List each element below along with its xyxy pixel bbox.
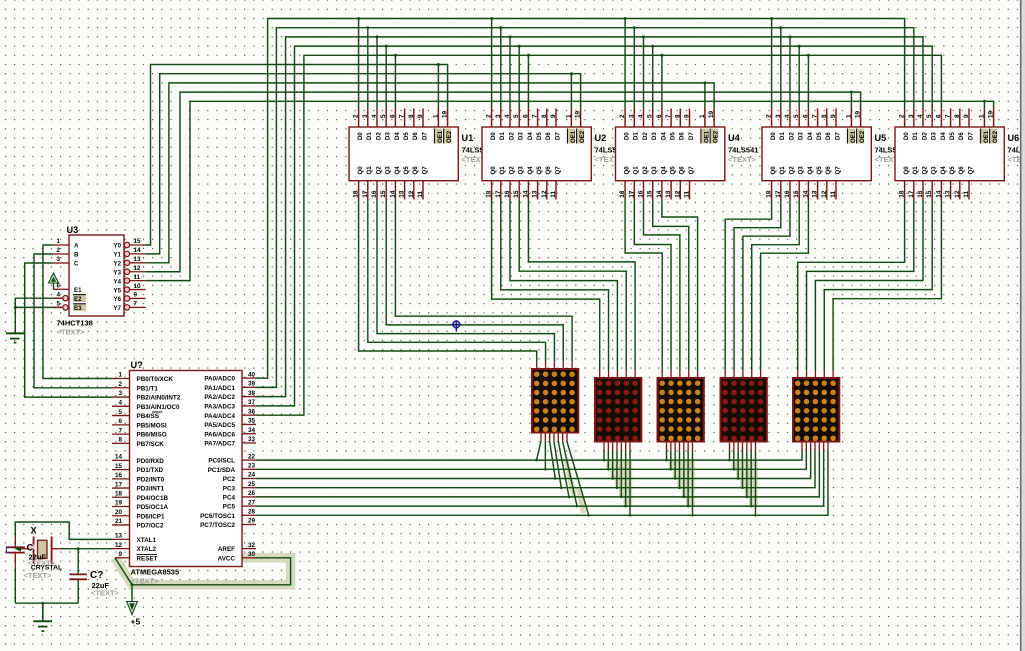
wire: data bus net PA3 (MCU pin 37 to D3 rails) (256, 46, 932, 406)
svg-text:36: 36 (248, 408, 256, 415)
wire: drop of data net PA4 to U4 pin D4 (661, 55, 663, 108)
svg-text:OE1: OE1 (850, 130, 857, 143)
svg-text:24: 24 (248, 472, 256, 479)
U4 pin 9 D7 (689, 109, 691, 128)
ground symbol at U3 E2/E3 (6, 332, 24, 334)
crystal X (19, 548, 34, 550)
svg-text:D2: D2 (788, 132, 795, 140)
svg-text:11: 11 (830, 190, 837, 197)
wire: U1 Q2 to DotMatrix1 column 3 (377, 200, 554, 362)
svg-text:PC4: PC4 (223, 495, 236, 502)
svg-text:11: 11 (963, 190, 970, 197)
MCU U? ATMEGA8535 (130, 371, 243, 567)
U1 pin 16 Q2 (376, 181, 378, 200)
wire: drop of data net PA2 to U4 pin D2 (643, 37, 645, 109)
U4 pin 17 Q1 (633, 181, 635, 200)
svg-text:17: 17 (115, 481, 123, 488)
svg-text:Q2: Q2 (642, 166, 649, 175)
svg-text:5: 5 (380, 114, 387, 118)
svg-text:U4: U4 (728, 133, 741, 143)
svg-text:D4: D4 (807, 132, 814, 140)
svg-text:OE1: OE1 (437, 130, 444, 143)
svg-text:2: 2 (118, 381, 122, 388)
wire: DotMatrix4 row 1 drop to row bus PC0 (729, 451, 731, 461)
svg-text:PD2/INT0: PD2/INT0 (137, 476, 165, 483)
svg-text:D0: D0 (357, 132, 364, 140)
wire: DotMatrix1 row 5 diagonal to row bus PC4 (558, 442, 569, 497)
wire: drop of data net PA0 to U2 pin D0 (491, 19, 493, 109)
U5 pin 11 Q7 (835, 181, 837, 200)
U5 pin 16 Q2 (789, 181, 791, 200)
svg-text:Q7: Q7 (688, 166, 695, 175)
svg-text:14: 14 (802, 190, 809, 198)
wire: cap C? top lead (77, 549, 79, 575)
svg-text:12: 12 (134, 265, 142, 272)
U2 pin 5 D3 (518, 109, 520, 128)
svg-text:1: 1 (565, 114, 572, 118)
svg-text:5: 5 (56, 301, 60, 308)
ground symbol bottom left (42, 603, 44, 621)
svg-text:5: 5 (647, 114, 654, 118)
U? pin 1 PB0/T0/XCK (112, 378, 130, 380)
U2 pin 4 D2 (509, 109, 511, 128)
wire: cap C? bottom lead to ground rail (77, 579, 79, 603)
svg-text:Q6: Q6 (825, 166, 832, 175)
wire: DotMatrix1 row 2 diagonal to row bus PC1 (544, 442, 546, 470)
svg-text:19: 19 (115, 500, 123, 507)
svg-text:D3: D3 (385, 132, 392, 140)
U6 pin 5 D3 (931, 109, 933, 128)
svg-text:1: 1 (432, 114, 439, 118)
svg-text:19: 19 (575, 110, 582, 118)
U2 pin 11 Q7 (555, 181, 557, 200)
svg-text:OE2: OE2 (579, 130, 586, 143)
svg-text:PD4/OC1B: PD4/OC1B (137, 495, 169, 502)
svg-text:3: 3 (628, 114, 635, 118)
U3 pin 14 Y1 (124, 251, 129, 256)
wire: drop of enable net Y2 to U4 pin OE1 (704, 83, 706, 109)
U? pin 19 PD5/OC1A (112, 506, 130, 508)
U3 pin 11 Y4 (124, 278, 129, 283)
svg-text:D4: D4 (940, 132, 947, 140)
U5 pin 5 D3 (798, 109, 800, 128)
U3 pin 1 A (53, 244, 69, 246)
wire: DotMatrix4 row 5 drop to row bus PC4 (746, 451, 748, 497)
svg-text:X: X (31, 526, 38, 536)
svg-text:8: 8 (118, 437, 122, 444)
svg-text:4: 4 (118, 400, 122, 407)
U4 pin 13 Q5 (670, 181, 672, 200)
U2 pin 1 OE1 (570, 109, 572, 128)
svg-text:4: 4 (371, 114, 378, 118)
wire: DotMatrix3 row 4 drop to row bus PC3 (678, 451, 680, 488)
wire: U6 Q1 to DotMatrix5 column 2 (807, 200, 914, 371)
svg-text:8: 8 (821, 114, 828, 118)
wire: XTAL2 net (60, 548, 112, 550)
wire: enable net Y2 (U3 pin 13 to U4 OE1/OE2) (146, 83, 715, 263)
U? pin 21 PD7/OC2 (112, 524, 130, 526)
U? pin 20 PD6/ICP1 (112, 515, 130, 517)
svg-text:Y2: Y2 (114, 261, 122, 268)
U1 pin 19 OE2 (447, 109, 449, 128)
svg-text:D6: D6 (958, 132, 965, 140)
svg-text:D1: D1 (912, 132, 919, 140)
svg-text:8: 8 (674, 114, 681, 118)
svg-text:2: 2 (353, 114, 360, 118)
svg-text:+5: +5 (131, 616, 141, 626)
svg-text:D0: D0 (490, 132, 497, 140)
U5 pin 1 OE1 (850, 109, 852, 128)
wire: U1 Q0 to DotMatrix1 column 1 (359, 200, 537, 362)
U2 pin 6 D4 (527, 109, 529, 128)
U4 pin 8 D6 (679, 109, 681, 128)
svg-text:38: 38 (248, 390, 256, 397)
svg-text:U6: U6 (1008, 133, 1020, 143)
svg-text:15: 15 (134, 238, 142, 245)
svg-text:12: 12 (408, 190, 415, 198)
svg-text:U3: U3 (67, 225, 79, 235)
svg-text:D3: D3 (651, 132, 658, 140)
wire: DotMatrix3 row 7 drop to row bus PC6 (691, 451, 693, 516)
wire: enable net Y1 (U3 pin 14 to U2 OE1/OE2) (146, 74, 581, 254)
svg-text:Q5: Q5 (670, 166, 677, 175)
U? pin 13 XTAL1 (112, 538, 130, 540)
svg-text:D5: D5 (949, 132, 956, 140)
wire: DotMatrix4 row 4 drop to row bus PC3 (741, 451, 743, 488)
U? pin 4 PB3/AIN1/OC0 (112, 405, 130, 407)
wire: U5 Q2 to DotMatrix4 column 3 (743, 200, 790, 371)
svg-text:U2: U2 (595, 133, 607, 143)
U3 pin 15 Y0 (124, 242, 129, 247)
svg-text:E3: E3 (74, 305, 82, 312)
wire: DotMatrix1 row 1 diagonal to row bus PC0 (537, 442, 542, 461)
U6 pin 2 D0 (904, 109, 906, 128)
wire: row bus net PC1 (MCU pin 23 to matrix rows) (256, 451, 806, 470)
svg-text:2: 2 (56, 247, 60, 254)
svg-text:6: 6 (522, 114, 529, 118)
svg-text:6: 6 (56, 283, 60, 290)
svg-text:9: 9 (684, 114, 691, 118)
wire: DotMatrix3 row 6 drop to row bus PC5 (687, 451, 689, 507)
svg-text:Q1: Q1 (366, 166, 373, 175)
svg-text:35: 35 (248, 418, 256, 425)
svg-text:4: 4 (56, 291, 60, 298)
U6 pin 6 D4 (940, 109, 942, 128)
U? pin 28 PC6/TOSC1 (242, 514, 256, 516)
U1 pin 18 Q0 (358, 181, 360, 200)
wire: U2 Q4 to DotMatrix2 column 5 (528, 200, 635, 371)
svg-text:8: 8 (408, 114, 415, 118)
svg-text:4: 4 (638, 114, 645, 118)
wire: DotMatrix4 row 3 drop to row bus PC2 (737, 451, 739, 479)
svg-text:D4: D4 (660, 132, 667, 140)
svg-text:D6: D6 (545, 132, 552, 140)
svg-text:PB0/T0/XCK: PB0/T0/XCK (137, 376, 174, 383)
U1 pin 15 Q3 (385, 181, 387, 200)
wire: row bus net PC0 (MCU pin 22 to matrix rows) (256, 451, 802, 461)
svg-text:OE2: OE2 (992, 130, 999, 143)
svg-text:PD7/OC2: PD7/OC2 (137, 523, 164, 530)
U4 pin 18 Q0 (624, 181, 626, 200)
svg-text:25: 25 (248, 481, 256, 488)
capacitor C1 (left, vertical) (14, 537, 16, 548)
svg-text:Q1: Q1 (633, 166, 640, 175)
U1 pin 5 D3 (385, 109, 387, 128)
svg-text:12: 12 (954, 190, 961, 198)
svg-text:Q5: Q5 (536, 166, 543, 175)
U1 pin 12 Q6 (413, 181, 415, 200)
wire: drop of data net PA3 to U5 pin D3 (798, 46, 800, 108)
U5 pin 12 Q6 (826, 181, 828, 200)
svg-text:3: 3 (908, 114, 915, 118)
svg-text:15: 15 (926, 190, 933, 198)
U? pin 5 PB4/SS (112, 415, 130, 417)
wire: DotMatrix3 row 5 drop to row bus PC4 (683, 451, 685, 497)
svg-text:6: 6 (656, 114, 663, 118)
svg-text:32: 32 (248, 542, 256, 549)
svg-text:13: 13 (665, 190, 672, 198)
svg-text:Q3: Q3 (518, 166, 525, 175)
wire: row bus net PC4 (MCU pin 26 to matrix rows) (256, 451, 819, 497)
svg-text:19: 19 (988, 110, 995, 118)
svg-text:Q2: Q2 (508, 166, 515, 175)
svg-text:1: 1 (845, 114, 852, 118)
svg-text:15: 15 (513, 190, 520, 198)
svg-text:13: 13 (945, 190, 952, 198)
svg-text:D1: D1 (633, 132, 640, 140)
svg-text:5: 5 (118, 409, 122, 416)
svg-text:PA5/ADC5: PA5/ADC5 (204, 422, 235, 429)
U5 pin 15 Q3 (798, 181, 800, 200)
U6 pin 8 D6 (959, 109, 961, 128)
svg-text:12: 12 (821, 190, 828, 198)
wire: DotMatrix2 row 3 drop to row bus PC2 (612, 451, 614, 479)
svg-text:16: 16 (784, 190, 791, 198)
svg-text:4: 4 (784, 114, 791, 118)
svg-text:17: 17 (495, 190, 502, 198)
svg-text:6: 6 (389, 114, 396, 118)
svg-text:7: 7 (118, 427, 122, 434)
svg-text:9: 9 (963, 114, 970, 118)
label C left cap (28, 544, 34, 550)
U? pin 25 PC3 (242, 487, 256, 489)
U2 pin 13 Q5 (537, 181, 539, 200)
svg-text:9: 9 (417, 114, 424, 118)
svg-text:D2: D2 (642, 132, 649, 140)
svg-text:18: 18 (899, 190, 906, 198)
U2 pin 18 Q0 (491, 181, 493, 200)
U3 pin 5 E3 (53, 306, 62, 308)
U4 pin 12 Q6 (679, 181, 681, 200)
svg-text:15: 15 (793, 190, 800, 198)
svg-text:30: 30 (248, 551, 256, 558)
wire: data bus net PA2 (MCU pin 38 to D2 rails) (256, 37, 923, 397)
svg-text:PA6/ADC6: PA6/ADC6 (204, 431, 235, 438)
U1 pin 8 D6 (413, 109, 415, 128)
U6 pin 19 OE2 (993, 109, 995, 128)
U? pin 22 PC0/SCL (242, 459, 256, 461)
svg-text:20: 20 (115, 509, 123, 516)
wire: drop of data net PA1 to U2 pin D1 (500, 28, 502, 109)
svg-text:PA4/ADC4: PA4/ADC4 (204, 413, 235, 420)
U1 pin 7 D5 (404, 109, 406, 128)
svg-text:PC7/TOSC2: PC7/TOSC2 (200, 522, 235, 529)
wire: U1 Q3 to DotMatrix1 column 4 (386, 200, 563, 362)
U4 pin 11 Q7 (689, 181, 691, 200)
svg-text:19: 19 (708, 110, 715, 118)
svg-text:Q2: Q2 (921, 166, 928, 175)
svg-text:Q2: Q2 (788, 166, 795, 175)
svg-text:E1: E1 (74, 287, 82, 294)
wire: U6 Q0 to DotMatrix5 column 1 (798, 200, 905, 371)
wire: DotMatrix3 row 3 drop to row bus PC2 (674, 451, 676, 479)
svg-text:39: 39 (248, 381, 256, 388)
wire: U5 Q1 to DotMatrix4 column 2 (734, 200, 781, 371)
wire: data bus net PA1 (MCU pin 39 to D1 rails) (256, 28, 914, 388)
svg-text:OE2: OE2 (446, 130, 453, 143)
svg-text:OE1: OE1 (570, 130, 577, 143)
svg-text:D0: D0 (624, 132, 631, 140)
wire: drop of data net PA1 to U5 pin D1 (780, 28, 782, 109)
U? pin 16 PD2/INT0 (112, 478, 130, 480)
U4 pin 6 D4 (661, 109, 663, 128)
wire: drop of data net PA4 to U1 pin D4 (394, 55, 396, 108)
wire: U3 E2 to ground (15, 298, 62, 333)
svg-text:Q7: Q7 (421, 166, 428, 175)
U4 pin 7 D5 (670, 109, 672, 128)
U1 pin 6 D4 (394, 109, 396, 128)
wire: DotMatrix1 row 3 diagonal to row bus PC2 (550, 442, 556, 479)
svg-text:12: 12 (115, 542, 123, 549)
wire: drop of data net PA3 to U4 pin D3 (652, 46, 654, 108)
svg-text:4: 4 (504, 114, 511, 118)
wire: enable net Y0 (U3 pin 15 to U1 OE1/OE2) (146, 65, 448, 246)
U? pin 8 PB7/SCK (112, 442, 130, 444)
svg-text:D6: D6 (412, 132, 419, 140)
U2 pin 16 Q2 (509, 181, 511, 200)
wire: data bus net PA0 (MCU pin 40 to D0 rails) (256, 19, 905, 379)
U1 pin 17 Q1 (367, 181, 369, 200)
svg-text:OE2: OE2 (713, 130, 720, 143)
U5 pin 4 D2 (789, 109, 791, 128)
svg-text:27: 27 (248, 499, 256, 506)
svg-text:Q6: Q6 (679, 166, 686, 175)
svg-text:Q6: Q6 (545, 166, 552, 175)
svg-text:18: 18 (486, 190, 493, 198)
svg-text:Y7: Y7 (114, 305, 122, 312)
svg-text:3: 3 (775, 114, 782, 118)
svg-text:Q0: Q0 (490, 166, 497, 175)
svg-text:74LS541: 74LS541 (728, 146, 758, 155)
U2 pin 2 D0 (491, 109, 493, 128)
svg-text:9: 9 (118, 551, 122, 558)
svg-text:9: 9 (134, 292, 138, 299)
wire: U5 Q0 to DotMatrix4 column 1 (725, 200, 771, 371)
U6 pin 11 Q7 (968, 181, 970, 200)
svg-text:Q4: Q4 (940, 166, 947, 175)
U4 pin 2 D0 (624, 109, 626, 128)
svg-text:PC0/SCL: PC0/SCL (208, 458, 235, 465)
svg-text:U1: U1 (462, 133, 474, 143)
U? pin 26 PC4 (242, 496, 256, 498)
svg-text:Q7: Q7 (834, 166, 841, 175)
buffer U6 74LS541 (895, 127, 1004, 181)
svg-text:Q1: Q1 (499, 166, 506, 175)
svg-text:Q5: Q5 (816, 166, 823, 175)
svg-text:14: 14 (522, 190, 529, 198)
svg-text:XTAL1: XTAL1 (137, 537, 157, 544)
wire: U3 E3 to ground (15, 306, 62, 308)
svg-text:3: 3 (362, 114, 369, 118)
svg-text:Q3: Q3 (385, 166, 392, 175)
svg-text:Q5: Q5 (949, 166, 956, 175)
svg-text:D5: D5 (403, 132, 410, 140)
svg-text:13: 13 (532, 190, 539, 198)
svg-text:PC1/SDA: PC1/SDA (208, 467, 236, 474)
wire: enable net Y3 (U3 pin 12 to U5 OE1/OE2) (146, 92, 861, 272)
svg-text:11: 11 (134, 274, 141, 281)
wire: drop of data net PA0 to U1 pin D0 (358, 19, 360, 109)
U? pin 37 PA3/ADC3 (242, 405, 256, 407)
svg-text:U5: U5 (875, 133, 887, 143)
U5 pin 14 Q4 (807, 181, 809, 200)
wire: U4 Q0 to DotMatrix3 column 1 (625, 200, 662, 371)
wire: drop of data net PA4 to U5 pin D4 (807, 55, 809, 108)
wire: DotMatrix2 row 4 drop to row bus PC3 (616, 451, 618, 488)
svg-text:D7: D7 (688, 132, 695, 140)
svg-text:Q7: Q7 (967, 166, 974, 175)
svg-text:7: 7 (945, 114, 952, 118)
wire: drop of data net PA3 to U2 pin D3 (518, 46, 520, 108)
U? pin 18 PD4/OC1B (112, 496, 130, 498)
svg-text:D7: D7 (421, 132, 428, 140)
svg-text:PB1/T1: PB1/T1 (137, 385, 159, 392)
U6 pin 1 OE1 (983, 109, 985, 128)
svg-text:RESET: RESET (137, 555, 158, 562)
svg-text:2: 2 (619, 114, 626, 118)
U1 pin 9 D7 (422, 109, 424, 128)
svg-text:Y5: Y5 (114, 287, 122, 294)
U6 pin 13 Q5 (950, 181, 952, 200)
wire: DotMatrix3 row 1 drop to row bus PC0 (666, 451, 668, 461)
U? pin 35 PA5/ADC5 (242, 423, 256, 425)
svg-text:Q1: Q1 (779, 166, 786, 175)
svg-text:29: 29 (248, 518, 256, 525)
svg-text:PC6/TOSC1: PC6/TOSC1 (200, 513, 235, 520)
svg-text:11: 11 (417, 190, 424, 197)
U6 pin 17 Q1 (913, 181, 915, 200)
svg-text:C?: C? (90, 570, 103, 581)
svg-text:Y0: Y0 (114, 243, 122, 250)
svg-text:Q3: Q3 (931, 166, 938, 175)
U3 pin 9 Y6 (124, 296, 129, 301)
svg-text:AREF: AREF (218, 546, 235, 553)
U4 pin 5 D3 (652, 109, 654, 128)
U6 pin 3 D1 (913, 109, 915, 128)
net highlight band: +5/RESET/AVCC net (115, 558, 291, 585)
U? pin 9 RESET (115, 557, 130, 559)
LED dot matrix DotMatrix5 (lit) (797, 370, 799, 378)
wire: drop of data net PA2 to U2 pin D2 (509, 37, 511, 109)
wire: DotMatrix4 row 7 drop to row bus PC6 (754, 451, 756, 516)
wire: drop of enable net Y3 to U5 pin OE1 (850, 92, 852, 108)
wire: enable net Y4 (U3 pin 11 to U6 OE1/OE2) (146, 101, 994, 280)
U? pin 36 PA4/ADC4 (242, 414, 256, 416)
svg-text:E2: E2 (74, 296, 82, 303)
U6 pin 4 D2 (922, 109, 924, 128)
svg-text:34: 34 (248, 427, 256, 434)
U1 pin 13 Q5 (404, 181, 406, 200)
